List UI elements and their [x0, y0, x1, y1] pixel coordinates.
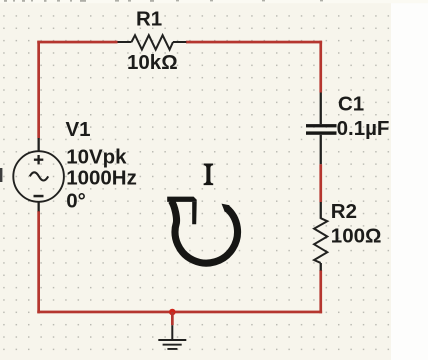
svg-text:V1: V1 — [66, 118, 91, 141]
ground symbol — [158, 325, 186, 350]
current loop arrowhead barb — [192, 202, 197, 224]
svg-text:10kΩ: 10kΩ — [127, 51, 178, 74]
junction dot at ground node — [169, 309, 176, 316]
V1 sine wave — [30, 172, 48, 180]
ground red stub — [171, 312, 174, 325]
wire left vertical lower — [37, 211, 40, 313]
svg-text:100Ω: 100Ω — [331, 224, 382, 247]
source V1 circle — [13, 151, 64, 202]
wire right lower segment R2-bottom — [319, 270, 322, 313]
capacitor C1 plates — [306, 124, 337, 127]
wire right mid segment C1-R2 — [319, 164, 322, 202]
svg-text:0°: 0° — [66, 190, 86, 213]
current loop arrow arc — [171, 201, 237, 263]
V1 minus sign — [34, 195, 44, 198]
svg-text:R2: R2 — [331, 200, 357, 223]
wire top right segment — [186, 41, 322, 44]
svg-text:0.1µF: 0.1µF — [337, 117, 390, 140]
wire left vertical upper — [37, 41, 40, 139]
svg-text:R1: R1 — [136, 8, 162, 31]
current label I (serif glyph drawn as path) — [204, 164, 214, 186]
capacitor C1 lead top (black) — [320, 93, 322, 125]
wire right vertical upper — [319, 41, 322, 93]
source V1 lead top (black) — [38, 138, 40, 152]
current loop arrowhead bar — [167, 197, 197, 202]
svg-text:C1: C1 — [338, 93, 364, 116]
resistor R2 lead top (black) — [320, 202, 322, 219]
resistor R2 zigzag — [314, 218, 327, 263]
V1 plus sign — [34, 155, 43, 164]
wire bottom — [37, 311, 322, 314]
wire top (red, node from V1+ to C1) — [37, 41, 117, 44]
current loop tail flare — [222, 204, 230, 213]
svg-text:10Vpk: 10Vpk — [66, 146, 127, 169]
resistor R1 — [118, 35, 187, 49]
resistor R2 lead bottom (black) — [320, 263, 322, 271]
source V1 lead bottom (black) — [38, 202, 40, 212]
capacitor C1 lead bottom (black) — [320, 135, 322, 164]
svg-text:1000Hz: 1000Hz — [66, 167, 137, 190]
